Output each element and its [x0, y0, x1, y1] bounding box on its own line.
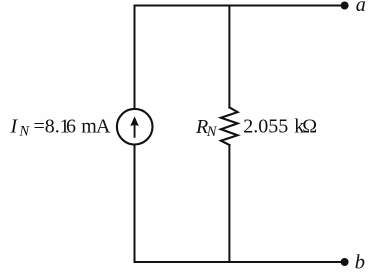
svg-text:2.055: 2.055 — [243, 115, 288, 137]
current source IN circle — [117, 109, 153, 145]
wire right vertical lower — [228, 145, 230, 262]
svg-text:kΩ: kΩ — [294, 115, 316, 137]
wire right vertical upper — [228, 6, 230, 108]
current source arrow — [130, 116, 139, 138]
node b terminal dot — [341, 258, 349, 266]
wire top horizontal (node a rail) — [135, 5, 343, 7]
node a terminal dot — [341, 2, 349, 10]
svg-text:IN=8.16mA: IN=8.16mA — [10, 116, 111, 140]
wire left vertical lower — [134, 145, 136, 262]
svg-text:b: b — [355, 252, 365, 274]
svg-text:a: a — [356, 0, 366, 16]
resistor RN zigzag — [221, 107, 238, 145]
svg-text:RN: RN — [195, 116, 218, 140]
wire bottom horizontal (node b rail) — [135, 261, 343, 263]
wire left vertical upper — [134, 6, 136, 109]
